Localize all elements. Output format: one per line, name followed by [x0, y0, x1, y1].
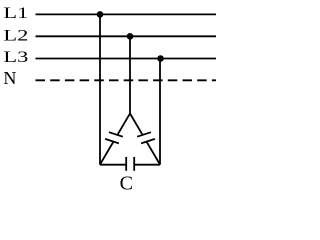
svg-text:N: N [3, 68, 16, 88]
svg-text:L3: L3 [3, 49, 28, 66]
svg-text:L2: L2 [3, 27, 28, 44]
svg-text:L1: L1 [3, 5, 28, 22]
svg-text:C: C [120, 173, 133, 195]
